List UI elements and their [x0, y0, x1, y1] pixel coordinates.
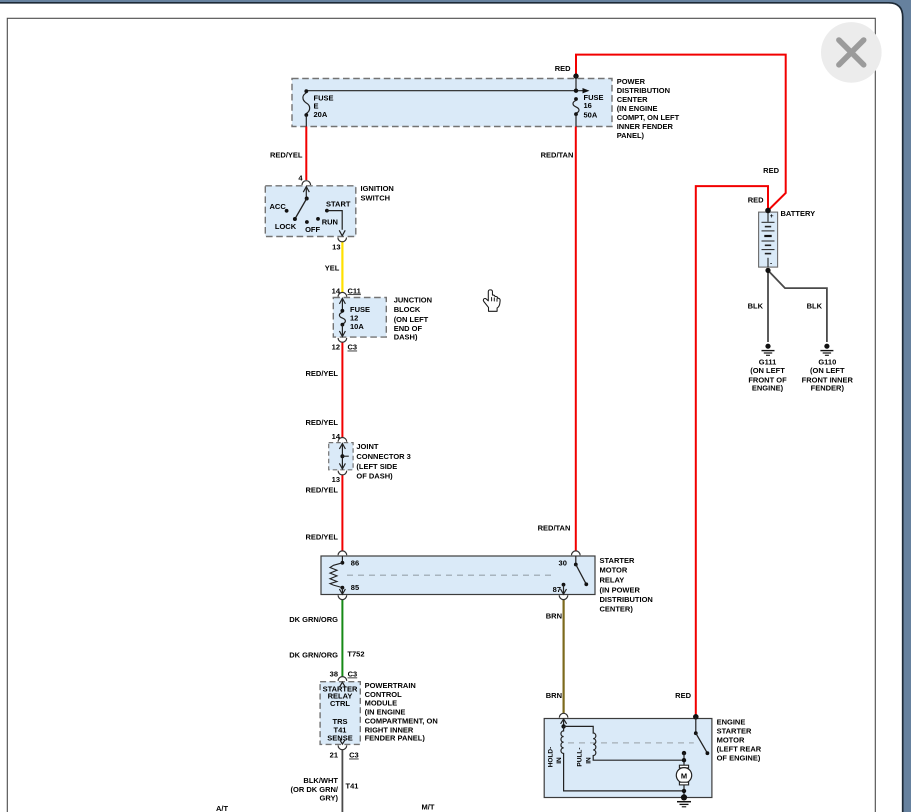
joint connector 3 pin 13 connector [338, 463, 347, 475]
label JOINT CONNECTOR 3 [356, 442, 410, 481]
svg-text:(LEFT REAR: (LEFT REAR [717, 745, 762, 754]
svg-text:RED/YEL: RED/YEL [305, 532, 338, 541]
svg-text:C3: C3 [348, 343, 358, 352]
svg-text:M: M [681, 771, 687, 780]
svg-text:STARTER: STARTER [717, 727, 752, 736]
svg-text:MODULE: MODULE [365, 699, 398, 708]
wire BLK battery negative to ground G111 [767, 270, 769, 342]
svg-text:END OF: END OF [394, 324, 423, 333]
svg-text:A/T: A/T [216, 804, 229, 812]
svg-text:10A: 10A [350, 322, 364, 331]
svg-text:(ON LEFT: (ON LEFT [394, 315, 429, 324]
svg-text:POWER: POWER [617, 77, 646, 86]
svg-text:13: 13 [332, 243, 340, 252]
svg-text:21: 21 [330, 751, 338, 760]
svg-text:14: 14 [332, 432, 341, 441]
label pin 21 C3 [330, 751, 359, 760]
ground G110 symbol [820, 344, 833, 356]
svg-text:RED/YEL: RED/YEL [305, 369, 338, 378]
junction block box [333, 298, 386, 338]
svg-text:JUNCTION: JUNCTION [394, 296, 432, 305]
svg-text:38: 38 [330, 670, 338, 679]
svg-text:RED/TAN: RED/TAN [538, 524, 571, 533]
svg-text:RED: RED [763, 166, 779, 175]
svg-text:POWERTRAIN: POWERTRAIN [365, 681, 416, 690]
svg-text:LOCK: LOCK [275, 222, 297, 231]
relay pin 87 connector [559, 583, 568, 600]
label FUSE 16 50A [584, 93, 604, 120]
svg-text:OF DASH): OF DASH) [356, 472, 393, 481]
wire PDC internal bus with arrow [306, 76, 589, 93]
wire BRN relay pin 87 to starter motor [562, 600, 564, 714]
battery [759, 212, 778, 267]
svg-text:(IN ENGINE: (IN ENGINE [617, 104, 658, 113]
svg-text:YEL: YEL [325, 263, 340, 272]
svg-text:(IN POWER: (IN POWER [600, 585, 641, 594]
svg-text:RED/YEL: RED/YEL [305, 486, 338, 495]
svg-text:12: 12 [350, 313, 358, 322]
node battery negative [765, 268, 770, 273]
svg-text:INNER FENDER: INNER FENDER [617, 122, 674, 131]
svg-text:MOTOR: MOTOR [717, 736, 745, 745]
wire BLK/WHT PCM pin 21 down [341, 749, 343, 812]
svg-text:IN: IN [556, 757, 563, 764]
label ENGINE STARTER MOTOR [717, 718, 762, 763]
wire RED/YEL joint connector 3 pin 13 to relay pin 86 [341, 475, 343, 551]
svg-text:DK GRN/ORG: DK GRN/ORG [289, 651, 338, 660]
svg-text:(LEFT SIDE: (LEFT SIDE [356, 462, 397, 471]
svg-text:BLOCK: BLOCK [394, 305, 421, 314]
starter motor ground [677, 794, 691, 806]
svg-text:IN: IN [586, 757, 593, 764]
svg-text:SWITCH: SWITCH [361, 193, 391, 202]
svg-text:PANEL): PANEL) [617, 131, 645, 140]
svg-text:16: 16 [584, 101, 592, 110]
svg-text:BLK: BLK [748, 302, 764, 311]
label JUNCTION BLOCK [394, 296, 432, 342]
label BLK/WHT [291, 776, 339, 802]
label FUSE E 20A [314, 93, 334, 119]
relay coil [330, 561, 344, 590]
svg-text:M/T: M/T [422, 803, 435, 812]
joint connector 3 pin 14 connector [338, 437, 347, 468]
relay pin 86 connector [338, 551, 347, 563]
svg-text:CONNECTOR 3: CONNECTOR 3 [356, 452, 410, 461]
mouse cursor [483, 290, 500, 311]
svg-text:BATTERY: BATTERY [781, 209, 816, 218]
svg-text:(IN ENGINE: (IN ENGINE [365, 708, 406, 717]
svg-text:85: 85 [351, 583, 359, 592]
label pin 14 C11 [332, 286, 361, 295]
svg-text:-: - [770, 261, 772, 268]
ignition switch pin 4 connector [302, 181, 311, 199]
svg-text:(ON LEFT: (ON LEFT [750, 366, 785, 375]
svg-text:BRN: BRN [546, 691, 562, 700]
svg-text:RED: RED [748, 196, 764, 205]
label POWERTRAIN CONTROL MODULE [365, 681, 438, 742]
svg-text:20A: 20A [314, 110, 328, 119]
wire RED/YEL fuse E to ignition switch pin 4 [305, 127, 307, 181]
svg-text:30: 30 [559, 558, 567, 567]
svg-text:GRY): GRY) [320, 793, 339, 802]
pull-in coil [564, 726, 684, 760]
svg-text:BLK/WHT: BLK/WHT [303, 776, 338, 785]
ignition switch pin 13 connector [338, 238, 347, 242]
svg-text:RED: RED [555, 64, 571, 73]
fuse 16 50A [573, 97, 579, 126]
svg-text:T752: T752 [347, 649, 364, 658]
close button [821, 22, 882, 83]
label FUSE 12 10A [350, 305, 370, 331]
svg-text:COMPT, ON LEFT: COMPT, ON LEFT [617, 113, 680, 122]
svg-text:BLK: BLK [807, 302, 823, 311]
node battery positive [765, 208, 771, 214]
svg-text:86: 86 [351, 558, 359, 567]
joint connector 3 box [329, 443, 353, 470]
svg-text:CENTER): CENTER) [600, 605, 634, 614]
ground G111 symbol [762, 344, 775, 356]
svg-text:ACC: ACC [270, 202, 287, 211]
wire RED from fuse 16 node to battery positive [576, 55, 786, 211]
wire RED battery positive to engine starter motor switch [696, 186, 768, 717]
label G111 [748, 358, 787, 393]
svg-text:RED/YEL: RED/YEL [305, 418, 338, 427]
svg-text:ENGINE: ENGINE [717, 718, 746, 727]
svg-text:C3: C3 [348, 670, 358, 679]
starter motor relay box [321, 556, 595, 595]
svg-text:IGNITION: IGNITION [361, 184, 394, 193]
svg-text:CTRL: CTRL [330, 699, 350, 708]
label G110 [802, 358, 854, 393]
svg-text:MOTOR: MOTOR [600, 566, 628, 575]
svg-text:OF ENGINE): OF ENGINE) [717, 754, 761, 763]
starter motor feed connector [559, 713, 568, 728]
node RED feed on PDC top edge [573, 73, 578, 78]
PCM pin 38 connector [338, 677, 347, 687]
starter motor switch [693, 714, 709, 755]
label STARTER RELAY CTRL / TRS T41 SENSE [323, 684, 358, 742]
svg-text:OFF: OFF [305, 225, 320, 234]
svg-text:STARTER: STARTER [600, 556, 635, 565]
svg-text:RUN: RUN [322, 218, 338, 227]
label IGNITION SWITCH [361, 184, 394, 202]
label STARTER MOTOR RELAY [600, 556, 653, 614]
svg-text:ENGINE): ENGINE) [752, 384, 784, 393]
svg-text:12: 12 [332, 343, 340, 352]
svg-text:CENTER: CENTER [617, 95, 648, 104]
wire RED/YEL junction block pin 12 to joint connector 3 pin 14 [341, 342, 343, 438]
powertrain control module box [320, 682, 360, 745]
label pin 38 C3 [330, 670, 358, 679]
svg-text:DISTRIBUTION: DISTRIBUTION [617, 86, 670, 95]
svg-text:DASH): DASH) [394, 333, 418, 342]
svg-text:C11: C11 [348, 286, 361, 295]
junction block pin 14 connector [338, 292, 347, 310]
junction block pin 12 connector [338, 338, 347, 342]
svg-text:SENSE: SENSE [327, 733, 352, 742]
svg-text:(ON LEFT: (ON LEFT [810, 366, 845, 375]
svg-text:HOLD-: HOLD- [547, 747, 554, 768]
wire RED/TAN fuse 16 to relay pin 30 [575, 127, 577, 551]
PCM pin 21 connector [338, 740, 347, 750]
motor M [676, 751, 691, 798]
svg-text:RED/TAN: RED/TAN [541, 151, 574, 160]
fuse E 20A [303, 89, 310, 126]
svg-text:START: START [326, 200, 351, 209]
wire YEL ignition pin 13 to junction block pin 14 [341, 241, 343, 292]
svg-text:BRN: BRN [546, 611, 562, 620]
svg-text:14: 14 [332, 286, 341, 295]
svg-text:+: + [770, 213, 774, 220]
svg-text:RELAY: RELAY [600, 575, 625, 584]
svg-text:13: 13 [332, 475, 340, 484]
svg-text:DK GRN/ORG: DK GRN/ORG [289, 615, 338, 624]
svg-text:87: 87 [553, 585, 561, 594]
svg-text:C3: C3 [349, 751, 359, 760]
engine starter motor box [544, 719, 712, 798]
label pin 12 C3 [332, 343, 357, 352]
power distribution center box [292, 79, 612, 127]
svg-text:JOINT: JOINT [356, 442, 379, 451]
svg-text:RED/YEL: RED/YEL [270, 151, 303, 160]
fuse 12 10A [339, 309, 345, 337]
svg-text:PULL-: PULL- [576, 747, 583, 766]
ignition switch contacts [285, 197, 346, 236]
svg-text:COMPARTMENT, ON: COMPARTMENT, ON [365, 717, 438, 726]
ignition switch box [265, 186, 356, 237]
svg-text:DISTRIBUTION: DISTRIBUTION [600, 595, 653, 604]
hold-in coil [561, 726, 684, 791]
label POWER DISTRIBUTION CENTER [617, 77, 680, 140]
svg-text:RED: RED [675, 691, 691, 700]
svg-text:T41: T41 [346, 781, 359, 790]
joint connector 3 bus node [340, 454, 348, 458]
wire BLK battery negative to ground G110 [768, 270, 827, 342]
relay switch blade [574, 563, 588, 587]
svg-text:FENDER): FENDER) [811, 384, 845, 393]
label PULL-IN [576, 747, 592, 766]
label HOLD-IN [547, 747, 563, 768]
svg-text:50A: 50A [584, 110, 598, 119]
wire DK GRN/ORG relay pin 85 to PCM pin 38 [341, 600, 343, 677]
svg-text:FENDER PANEL): FENDER PANEL) [365, 733, 426, 742]
relay pin 30 connector [572, 551, 581, 565]
relay pin 85 connector [338, 588, 347, 600]
